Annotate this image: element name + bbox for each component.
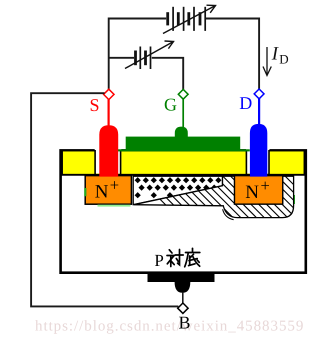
source red wire (107, 99, 109, 127)
svg-text:+: + (261, 176, 270, 195)
svg-text:N: N (245, 182, 259, 203)
svg-text:+: + (110, 176, 119, 195)
current arrow ID (263, 47, 271, 76)
battery B2 (VGS) plates (136, 47, 151, 70)
terminal D diamond (254, 89, 264, 99)
wire B stub (182, 292, 184, 304)
gate green bar (126, 137, 241, 150)
battery B1 variable arrow (163, 5, 216, 33)
terminal B diamond (178, 303, 188, 313)
svg-text:P: P (154, 251, 163, 270)
wire VGS to gate (152, 58, 183, 90)
wire top loop VDS (109, 19, 259, 92)
drain contact plug blue (250, 124, 267, 177)
svg-text:S: S (90, 95, 100, 115)
wire S to body left loop (31, 93, 178, 306)
hanzi di (底) (185, 248, 200, 266)
substrate contact bar (148, 272, 215, 282)
source contact plug red (99, 125, 118, 176)
source opening gap (95, 148, 122, 175)
terminal S diamond (104, 89, 114, 99)
gate contact bump (175, 127, 188, 150)
battery B2 variable arrow (125, 41, 174, 69)
wire VGS branch (109, 57, 134, 59)
channel dots (135, 177, 222, 198)
doubled corner artifact (223, 209, 234, 220)
N+ region left (84, 176, 131, 205)
depletion hatch region (126, 165, 320, 240)
oxide yellow bar (62, 151, 305, 175)
green artifact on left border (84, 188, 86, 196)
hanzi chen (衬) (167, 250, 183, 267)
channel green line under N+ left (98, 205, 131, 207)
inversion channel dotted wedge (133, 176, 222, 204)
wire top-left segment (109, 19, 167, 92)
substrate contact dome (175, 282, 191, 293)
terminal G diamond (178, 89, 188, 99)
svg-text:G: G (164, 94, 177, 114)
drain blue wire (258, 98, 260, 125)
svg-text:D: D (279, 51, 288, 66)
green artifact right of hatch (293, 195, 295, 204)
device outer box (61, 150, 306, 272)
N+ region right (234, 176, 282, 205)
svg-text:https://blog.csdn.net/weixin_4: https://blog.csdn.net/weixin_45883559 (35, 319, 304, 335)
drain opening gap (246, 148, 269, 175)
wire top-right segment (206, 19, 260, 90)
gate thin electrode line (118, 149, 250, 151)
svg-text:D: D (239, 93, 252, 113)
battery B1 (VDS) plates (168, 7, 206, 31)
svg-text:N: N (95, 181, 109, 202)
gate green wire (182, 99, 184, 129)
svg-text:B: B (179, 313, 191, 333)
